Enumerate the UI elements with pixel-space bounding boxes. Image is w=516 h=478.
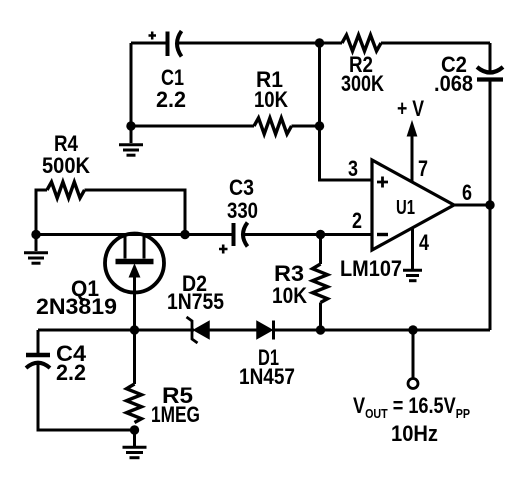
svg-text:3: 3 (348, 156, 358, 181)
wire pin 6 output (454, 204, 490, 207)
minus input mark (377, 233, 388, 236)
wire R4 loop (36, 190, 185, 235)
wire right rail top (489, 43, 492, 72)
node R3 bottom (316, 325, 325, 334)
node output (408, 325, 417, 334)
svg-text:.068: .068 (434, 71, 473, 96)
output terminal stub (412, 330, 415, 378)
wire mid rail vertical and to pin 3 (320, 43, 373, 180)
wire R1 to mid rail (292, 125, 320, 128)
svg-text:+ V: + V (397, 96, 424, 121)
node gate bottom (130, 325, 139, 334)
wire C3 to pin 2 (242, 233, 372, 236)
diode D2 zener (187, 317, 210, 343)
svg-text:500K: 500K (42, 153, 90, 178)
svg-text:2: 2 (352, 208, 362, 233)
wire D1 to right rail (274, 329, 491, 332)
plus sign C1 (149, 32, 157, 40)
node C1 loop left (126, 121, 135, 130)
svg-text:7: 7 (418, 156, 428, 181)
wire top from C1 to R2 (178, 42, 342, 45)
+V arrow pin 7 (407, 122, 416, 182)
svg-text:C3: C3 (229, 175, 254, 200)
ground G4 (123, 430, 147, 458)
resistor R2 (342, 35, 381, 51)
svg-text:1MEG: 1MEG (151, 402, 200, 427)
svg-text:10Hz: 10Hz (391, 421, 438, 446)
svg-text:LM107: LM107 (340, 256, 402, 281)
wire D2 to D1 (209, 329, 257, 332)
wire R2 to top right corner (381, 42, 490, 45)
capacitor C3 (234, 223, 248, 247)
node R5 bottom (130, 425, 139, 434)
ground G3 (403, 270, 422, 280)
transistor Q1 (105, 234, 164, 331)
wire right rail bottom (489, 80, 492, 330)
svg-text:2.2: 2.2 (156, 87, 186, 112)
wire left vertical C1 loop (130, 43, 133, 126)
ground G2 (24, 235, 48, 264)
node pin 6 (485, 200, 494, 209)
svg-text:10K: 10K (272, 283, 307, 308)
wire long mid horizontal to C3 (36, 233, 233, 236)
resistor R4 (47, 182, 84, 198)
resistor R1 (254, 118, 292, 134)
svg-text:1N755: 1N755 (167, 289, 224, 314)
node top rail junction (315, 38, 324, 47)
svg-text:2.2: 2.2 (56, 360, 86, 385)
diode D1 (257, 321, 274, 340)
wire top left from corner to C1 (131, 42, 166, 45)
resistor R3 (313, 235, 328, 331)
resistor R5 (127, 330, 142, 430)
wire bottom of C1 loop (131, 125, 254, 128)
svg-text:10K: 10K (254, 87, 288, 112)
node R4 right (180, 230, 189, 239)
node R4 left (31, 230, 40, 239)
svg-text:4: 4 (419, 230, 430, 255)
capacitor C4 (26, 330, 135, 430)
svg-text:2N3819: 2N3819 (36, 294, 117, 319)
node pin 2 (316, 230, 325, 239)
op-amp U1 (372, 160, 454, 250)
svg-text:U1: U1 (396, 197, 415, 219)
output terminal circle (408, 379, 418, 389)
svg-text:300K: 300K (341, 71, 384, 96)
wire bottom left to D2 (38, 329, 194, 332)
pin 4 wire (411, 227, 414, 269)
svg-text:1N457: 1N457 (239, 364, 295, 389)
capacitor C2 (477, 67, 503, 80)
svg-text:6: 6 (462, 180, 472, 205)
capacitor C1 (168, 31, 182, 57)
node C1 loop right (315, 121, 324, 130)
ground G1 (119, 126, 143, 155)
svg-text:330: 330 (227, 198, 258, 223)
plus sign C3 (219, 245, 228, 254)
plus input mark (377, 177, 388, 188)
